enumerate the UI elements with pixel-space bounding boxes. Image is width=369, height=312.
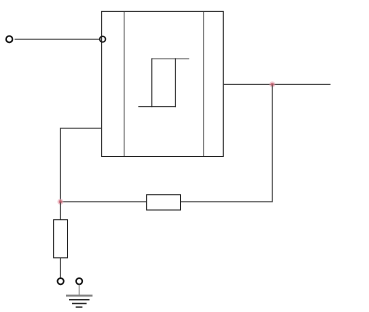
- node feedback top core: [271, 83, 274, 86]
- ground bar 2: [69, 299, 90, 301]
- hysteresis symbol top: [152, 58, 189, 60]
- U1 inner bar right: [203, 12, 205, 156]
- pin circle U1 input: [100, 36, 106, 42]
- wire output: [224, 83, 331, 85]
- node bottom-left (red): [57, 199, 63, 205]
- terminal ground: [76, 278, 82, 284]
- terminal bottom left: [58, 278, 64, 284]
- wire R2 down: [59, 258, 61, 278]
- ground bar 1: [66, 295, 93, 297]
- ground bar 4: [76, 306, 83, 308]
- hysteresis symbol right: [174, 58, 176, 107]
- input terminal: [6, 36, 12, 42]
- resistor R2 (vertical): [54, 220, 68, 258]
- ground bar 3: [72, 303, 87, 305]
- resistor R1 (feedback, horizontal): [147, 195, 181, 210]
- U1 inner bar left: [123, 12, 125, 156]
- node feedback top (red): [269, 81, 275, 87]
- ground stem: [78, 285, 80, 296]
- node bottom-left core: [59, 200, 62, 203]
- op-amp U1 body: [102, 11, 224, 156]
- wire feedback right vertical: [181, 84, 272, 201]
- wire R1 left to node: [60, 201, 146, 203]
- wire U1 left down: [60, 128, 101, 201]
- hysteresis symbol left: [151, 58, 153, 107]
- wire node down to R2: [59, 202, 61, 220]
- wire input: [15, 38, 100, 40]
- hysteresis symbol bottom: [138, 106, 176, 108]
